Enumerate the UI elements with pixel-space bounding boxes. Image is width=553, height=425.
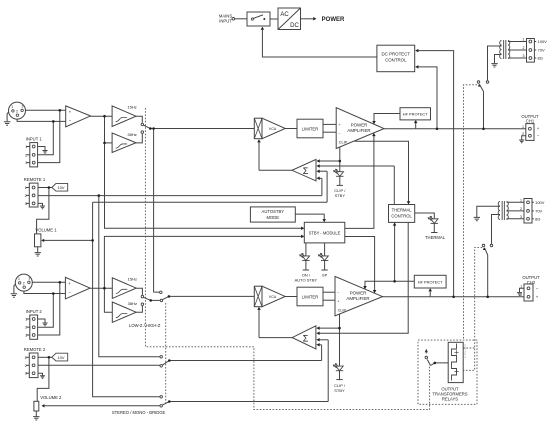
svg-text:INPUT 1: INPUT 1 bbox=[26, 136, 43, 141]
svg-text:CLIP: CLIP bbox=[339, 141, 348, 145]
svg-text:+: + bbox=[536, 294, 539, 299]
svg-text:−: − bbox=[338, 132, 340, 136]
svg-text:−: − bbox=[69, 118, 72, 123]
svg-text:15Hz: 15Hz bbox=[127, 105, 136, 110]
svg-text:−: − bbox=[537, 133, 540, 138]
svg-text:2: 2 bbox=[16, 110, 18, 114]
svg-text:SP: SP bbox=[322, 272, 328, 277]
svg-text:+: + bbox=[337, 300, 339, 304]
svg-text:8Ω: 8Ω bbox=[538, 56, 543, 61]
svg-text:CH1: CH1 bbox=[526, 119, 535, 124]
svg-text:1: 1 bbox=[11, 105, 13, 109]
svg-text:10V: 10V bbox=[58, 355, 65, 360]
svg-text:DC PROTECT: DC PROTECT bbox=[382, 52, 411, 57]
svg-text:VCA: VCA bbox=[269, 295, 277, 299]
svg-text:+: + bbox=[338, 123, 340, 127]
svg-text:INPUT: INPUT bbox=[219, 18, 232, 23]
svg-text:CONTROL: CONTROL bbox=[391, 214, 412, 219]
svg-text:2: 2 bbox=[523, 46, 525, 50]
svg-text:−: − bbox=[536, 286, 539, 291]
svg-text:AUTO STBY: AUTO STBY bbox=[295, 277, 318, 282]
svg-text:Σ: Σ bbox=[303, 166, 309, 176]
svg-text:HF PROTECT: HF PROTECT bbox=[418, 280, 443, 285]
svg-text:Σ: Σ bbox=[303, 334, 309, 344]
svg-text:15Hz: 15Hz bbox=[128, 277, 137, 282]
svg-text:VOLUME 1: VOLUME 1 bbox=[35, 228, 57, 233]
svg-text:AUTOSTBY: AUTOSTBY bbox=[262, 209, 285, 214]
svg-text:70V: 70V bbox=[538, 48, 545, 53]
svg-text:AMPLIFIER: AMPLIFIER bbox=[347, 128, 370, 133]
svg-text:AMPLIFIER: AMPLIFIER bbox=[346, 296, 369, 301]
svg-text:POWER: POWER bbox=[351, 123, 368, 128]
svg-text:1: 1 bbox=[18, 277, 20, 281]
svg-text:1: 1 bbox=[522, 125, 524, 129]
svg-text:+: + bbox=[537, 126, 540, 131]
svg-text:100V: 100V bbox=[538, 39, 548, 44]
svg-text:1: 1 bbox=[520, 199, 522, 203]
svg-text:2: 2 bbox=[522, 132, 524, 136]
svg-text:2: 2 bbox=[520, 207, 522, 211]
svg-text:LOW-Z / HIGH-Z: LOW-Z / HIGH-Z bbox=[129, 323, 161, 328]
svg-text:3: 3 bbox=[523, 54, 525, 58]
svg-text:STBY: STBY bbox=[335, 193, 346, 198]
svg-text:INPUT 2: INPUT 2 bbox=[26, 309, 43, 314]
svg-text:REMOTE 1: REMOTE 1 bbox=[24, 177, 46, 182]
svg-text:CONTROL: CONTROL bbox=[385, 58, 407, 63]
svg-text:3: 3 bbox=[28, 276, 30, 280]
svg-text:HF PROTECT: HF PROTECT bbox=[403, 112, 428, 117]
svg-text:70V: 70V bbox=[535, 209, 542, 214]
svg-text:−: − bbox=[68, 290, 71, 295]
svg-text:POWER: POWER bbox=[322, 17, 345, 23]
svg-text:38Hz: 38Hz bbox=[128, 301, 137, 306]
svg-text:RELAYS: RELAYS bbox=[442, 396, 458, 401]
svg-text:8Ω: 8Ω bbox=[535, 216, 540, 221]
svg-text:REMOTE 2: REMOTE 2 bbox=[24, 347, 46, 352]
svg-text:10V: 10V bbox=[58, 185, 65, 190]
svg-text:+: + bbox=[68, 281, 71, 286]
svg-text:CLIP: CLIP bbox=[338, 308, 347, 312]
svg-text:AC: AC bbox=[280, 12, 289, 18]
svg-text:38Hz: 38Hz bbox=[127, 132, 136, 137]
svg-text:1: 1 bbox=[523, 38, 525, 42]
svg-text:DC: DC bbox=[290, 23, 299, 29]
svg-text:LIMITER: LIMITER bbox=[302, 294, 319, 299]
svg-text:THERMAL: THERMAL bbox=[425, 235, 446, 240]
svg-text:3: 3 bbox=[22, 104, 24, 108]
svg-text:LIMITER: LIMITER bbox=[302, 126, 319, 131]
svg-text:3: 3 bbox=[520, 215, 522, 219]
svg-text:THERMAL: THERMAL bbox=[392, 208, 413, 213]
svg-text:100V: 100V bbox=[535, 200, 545, 205]
svg-text:VOLUME 2: VOLUME 2 bbox=[40, 395, 62, 400]
svg-text:VCA: VCA bbox=[269, 127, 277, 131]
svg-text:STEREO / MONO - BRIDGE: STEREO / MONO - BRIDGE bbox=[112, 410, 166, 415]
svg-text:STBY: STBY bbox=[334, 388, 345, 393]
svg-text:POWER: POWER bbox=[350, 290, 367, 295]
svg-text:+: + bbox=[69, 110, 72, 115]
svg-text:2: 2 bbox=[23, 282, 25, 286]
svg-text:MODE: MODE bbox=[267, 215, 280, 220]
svg-text:−: − bbox=[337, 291, 339, 295]
svg-text:1: 1 bbox=[520, 285, 522, 289]
svg-text:STBY - MODULE: STBY - MODULE bbox=[309, 231, 341, 236]
